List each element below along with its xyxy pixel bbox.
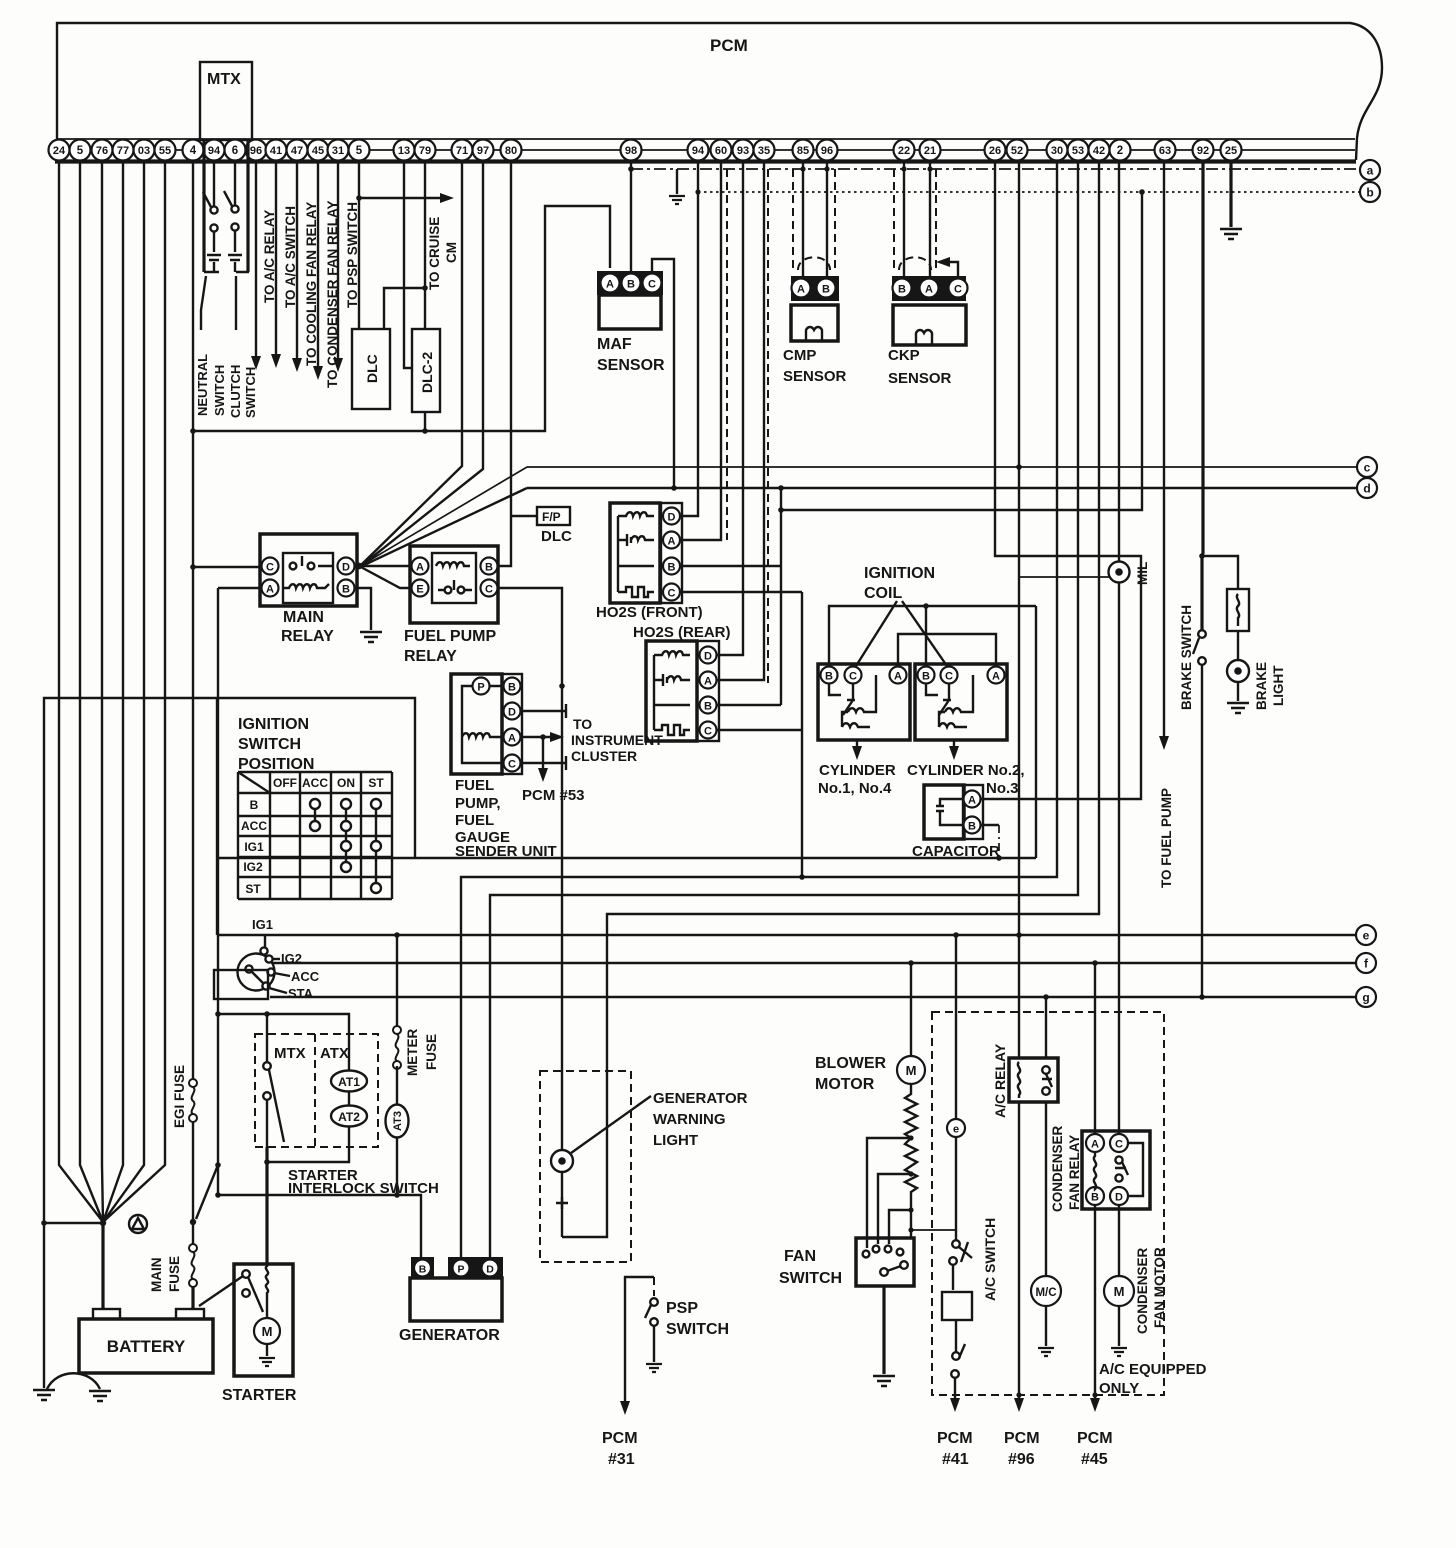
A/C switch upper contacts [949,1240,972,1290]
wire pin 96 to CMP B [826,161,828,277]
wire MAF feed line [193,206,610,431]
CYLINDER No.1, No.4 label [818,762,896,797]
wire node to battery post [101,1223,104,1309]
svg-text:B: B [704,701,712,713]
wire pin 60 to HO2S front A [681,161,721,540]
svg-text:SWITCH: SWITCH [779,1270,842,1287]
PCM pin row center line [57,149,1355,151]
wire pin 13 to DLC-2 [404,161,412,368]
svg-text:94: 94 [692,145,705,157]
svg-text:FUEL PUMP: FUEL PUMP [404,628,496,645]
PCM main connector box outline [57,23,1382,160]
IG2 label [272,958,280,960]
ground stub on bus a [676,169,678,194]
condenser fan motor [1104,1276,1134,1306]
svg-text:CLUSTER: CLUSTER [571,748,637,764]
DLC-2 box [412,329,440,412]
svg-text:30: 30 [1051,145,1063,157]
STA label [269,988,287,993]
BLOWER MOTOR label [815,1055,887,1093]
sender unit label [455,777,557,860]
wire condenser fan relay D to motor [1118,1205,1120,1276]
svg-text:C: C [266,562,274,574]
svg-text:CONDENSER: CONDENSER [1135,1247,1150,1334]
svg-text:C: C [648,279,656,291]
wire brake light branch [1202,556,1238,589]
wire HO2S rear B to riser [717,704,781,706]
wire AC relay coil to PCM 96 [1018,1102,1020,1400]
wire DLC-2 to feed line [424,412,426,431]
wire bus e (IG1) [217,934,1356,936]
svg-text:B: B [668,562,676,574]
svg-text:E: E [416,584,423,596]
wire pin 71 diagonal to relay node [361,161,462,565]
svg-text:77: 77 [117,145,129,157]
svg-text:IGNITION: IGNITION [238,716,309,733]
wire pin 26 to capacitor A [981,161,1141,799]
wire fan switch link to AC switch [911,1229,956,1231]
starter [234,1264,293,1376]
wire pin 97 diagonal to relay node [361,161,483,566]
node e repeat circle [947,1119,965,1137]
svg-text:PCM: PCM [1004,1430,1040,1447]
svg-text:A: A [606,279,614,291]
A/C relay [1009,1058,1058,1102]
node g circle [1356,987,1376,1007]
svg-text:79: 79 [419,145,431,157]
svg-text:SENSOR: SENSOR [783,368,847,385]
svg-text:24: 24 [53,145,66,157]
svg-text:60: 60 [715,145,727,157]
svg-text:#96: #96 [1008,1451,1035,1468]
brake light resistor box [1227,589,1249,631]
svg-text:LIGHT: LIGHT [653,1132,698,1149]
svg-text:M: M [1114,1284,1125,1299]
wire MC to ground [1045,1306,1047,1346]
svg-text:SWITCH: SWITCH [666,1321,729,1338]
interlock switch contacts [263,1034,284,1162]
svg-text:B: B [825,671,833,683]
wire AT2 to starter wire [267,1127,349,1162]
wire stub with arrow from pin 41 [275,161,277,356]
svg-text:B: B [485,562,493,574]
wire CKP C shield stub [944,262,958,277]
ground fan switch [873,1376,895,1386]
svg-text:ONLY: ONLY [1099,1380,1139,1397]
wire pin 22 to CKP B [903,161,905,277]
capacitor [924,785,983,839]
ignition coil cylinder No.1 No.4 [818,664,910,760]
wire node to fuel pump relay E [359,566,411,588]
svg-text:76: 76 [96,145,108,157]
clutch switch pointer [235,276,237,330]
svg-text:PUMP,: PUMP, [455,795,501,812]
wire pin 63 to fuel pump arrow [1163,161,1165,738]
wire fan switch to ground [882,1286,885,1374]
svg-text:FAN MOTOR: FAN MOTOR [1152,1247,1167,1328]
svg-text:B: B [250,798,259,812]
wire PSP to PCM 31 [625,1277,654,1403]
svg-text:53: 53 [1072,145,1084,157]
wire meter fuse riser [396,935,398,1030]
generator [410,1257,503,1321]
PCM #41 label [937,1430,973,1468]
neutral switch contacts [203,161,221,272]
blower resistor taps [867,1138,911,1248]
ground battery left [33,1390,55,1400]
wire stub with arrow from pin 96 [255,161,257,358]
svg-text:LIGHT: LIGHT [1271,665,1286,706]
svg-text:B: B [342,584,350,596]
svg-text:M/C: M/C [1035,1287,1056,1299]
NEUTRAL SWITCH label [195,354,227,416]
PCM pin row bottom edge [55,159,1356,163]
GENERATOR WARNING LIGHT label [653,1090,748,1149]
svg-text:AT2: AT2 [338,1110,360,1124]
IGNITION SWITCH POSITION label [238,716,314,773]
wire pin 53 staircase to generator D [490,161,1078,1257]
HO2S (FRONT) sensor [610,503,682,603]
svg-text:C: C [485,584,493,596]
svg-text:g: g [1362,991,1369,1005]
F/P DLC box [537,507,572,545]
battery positive node junction [100,1220,106,1226]
wire HO2S front B to riser [681,565,781,567]
MTX bracket legs [204,140,248,272]
svg-text:B: B [419,1264,427,1276]
svg-text:98: 98 [625,145,637,157]
svg-text:85: 85 [797,145,809,157]
magnetic clutch M/C [1031,1276,1061,1306]
svg-text:PCM: PCM [602,1430,638,1447]
svg-text:NEUTRAL: NEUTRAL [195,354,210,416]
svg-text:C: C [1115,1139,1123,1151]
svg-text:MAIN: MAIN [283,609,324,626]
svg-text:ATX: ATX [320,1045,349,1062]
shield dashed line rear A [767,169,769,683]
A/C equipped only dashed box [932,1012,1164,1395]
wire battery ground branch [44,1222,103,1224]
clutch switch contacts [224,161,242,272]
fuse EGI FUSE [189,1079,197,1122]
svg-text:No.1, No.4: No.1, No.4 [818,780,892,797]
svg-text:C: C [668,588,676,600]
TO INSTRUMENT CLUSTER label [571,716,663,764]
svg-text:CYLINDER No.2,: CYLINDER No.2, [907,762,1025,779]
svg-text:25: 25 [1225,145,1237,157]
wire from pin 76 [102,161,103,1222]
svg-text:SWITCH: SWITCH [243,367,258,418]
svg-text:A: A [668,536,676,548]
wire node to fuel pump relay A [359,565,411,567]
svg-text:HO2S (REAR): HO2S (REAR) [633,624,731,641]
fuel pump fuel gauge sender unit [451,674,522,774]
blower motor [910,963,912,1056]
wire pin 52 down to A/C relay coil [1018,161,1020,1058]
wire MAF C to bus d [652,259,674,488]
svg-text:A: A [894,671,902,683]
wire pin 30 staircase to generator P [461,161,1057,1257]
svg-text:ON: ON [337,776,355,790]
AT2 ellipse [331,1092,367,1127]
ACC label [274,973,290,976]
wire stub with arrow from pin 47 [296,161,298,360]
A/C switch thermo box [942,1292,972,1320]
wire pin 93 to HO2S rear D [717,161,743,655]
svg-text:FUEL: FUEL [455,812,494,829]
wire from pin 4 through EGI fuse and MAIN fuse to battery [192,161,194,1083]
svg-text:TO FUEL PUMP: TO FUEL PUMP [1159,788,1174,888]
wire from pin 03 [103,161,144,1222]
ground strap arc [47,1373,100,1389]
svg-text:e: e [1363,929,1370,943]
svg-text:TO A/C RELAY: TO A/C RELAY [262,210,277,303]
brake switch contacts [1193,630,1206,665]
generator warning light lamp [551,1150,573,1172]
svg-text:MAIN: MAIN [149,1258,164,1293]
svg-text:B: B [627,279,635,291]
svg-text:FUSE: FUSE [424,1034,439,1070]
svg-text:CM: CM [444,242,459,263]
wire pin 92 to brake switch [1202,161,1203,630]
svg-text:5: 5 [356,145,363,157]
wire pin 2 through MIL to condenser fan relay C [1118,161,1120,1134]
shield dashed line front A [726,169,728,540]
wire stub with arrow from pin 45 [317,161,319,368]
svg-text:B: B [922,671,930,683]
svg-text:FAN: FAN [784,1248,816,1265]
svg-text:COIL: COIL [864,585,902,602]
svg-text:FUSE: FUSE [167,1256,182,1292]
wire capacitor B to bus 858 [981,824,999,826]
svg-text:POSITION: POSITION [238,756,314,773]
wire from pin 24 [59,161,103,1222]
wire fuel pump relay C to sender B [497,588,562,686]
svg-text:MAF: MAF [597,336,632,353]
ignition switch position table [238,772,392,899]
blower resistor chain [905,1084,917,1238]
svg-text:M: M [262,1324,273,1339]
ground battery right [89,1391,111,1401]
svg-text:A: A [925,284,933,296]
wire pin 21 to CKP A [929,161,931,277]
svg-text:DLC: DLC [364,354,380,383]
svg-text:4: 4 [190,145,197,157]
wire MIL bottom stub [1019,576,1110,578]
svg-text:A/C RELAY: A/C RELAY [992,1043,1008,1118]
svg-text:52: 52 [1011,145,1023,157]
node e circle [1356,925,1376,945]
battery [79,1309,213,1373]
ignition switch position enclosure [44,698,415,1388]
svg-text:STARTER: STARTER [222,1387,297,1404]
wire pin 79 to DLC and DLC-2 [384,161,425,329]
svg-text:EGI FUSE: EGI FUSE [172,1065,187,1128]
svg-text:03: 03 [138,145,150,157]
relay node junction [356,563,363,570]
DLC box [352,329,390,409]
svg-text:BRAKE: BRAKE [1254,662,1269,710]
svg-text:C: C [704,726,712,738]
svg-text:P: P [477,682,484,694]
svg-text:CMP: CMP [783,347,816,364]
wire bus f to condenser fan relay A [1094,963,1096,1134]
wire HO2S rear C to riser [717,729,802,731]
shield dashed lines CMP [793,169,835,272]
wire bus c diagonal to relay node [360,467,527,566]
node c circle [1357,457,1377,477]
svg-text:GENERATOR: GENERATOR [399,1327,500,1344]
wire pin 25 to ground [1229,161,1232,227]
wire bus b (dotted to node b) [698,191,1360,193]
A/C EQUIPPED ONLY label [1099,1361,1207,1397]
svg-text:A/C EQUIPPED: A/C EQUIPPED [1099,1361,1207,1378]
FAN SWITCH label [779,1248,842,1287]
svg-text:TO PSP SWITCH: TO PSP SWITCH [345,202,360,308]
wire AC relay contact to bus g [1045,997,1047,1058]
svg-text:B: B [822,284,830,296]
wire AC relay contact to MC [1045,1102,1047,1276]
svg-text:26: 26 [989,145,1001,157]
svg-text:97: 97 [477,145,489,157]
svg-text:A/C SWITCH: A/C SWITCH [982,1218,998,1301]
svg-text:MTX: MTX [207,71,241,88]
node d circle [1357,478,1377,498]
wire ignition coil B bus [829,606,1036,667]
PCM #96 label [1004,1430,1040,1468]
AT3 ellipse [386,1105,409,1138]
svg-text:71: 71 [456,145,468,157]
PCM pin circles with pin numbers [49,140,1242,161]
CMP sensor [791,276,839,341]
PSP switch [645,1277,658,1362]
svg-text:PCM: PCM [937,1430,973,1447]
STARTER INTERLOCK SWITCH label [288,1167,439,1197]
svg-text:DLC: DLC [541,528,572,545]
wire bus g (STA) [270,996,1356,998]
CMP SENSOR label [783,347,847,385]
wire battery to starter contact [199,1276,243,1306]
svg-text:C: C [849,671,857,683]
generator warning light dashed box [540,1071,631,1262]
svg-text:42: 42 [1093,145,1105,157]
svg-text:TO CONDENSER FAN RELAY: TO CONDENSER FAN RELAY [325,200,340,388]
svg-text:No.3: No.3 [986,780,1019,797]
arrow to PCM 41 [950,1398,960,1412]
svg-text:#41: #41 [942,1451,969,1468]
svg-text:A: A [266,584,274,596]
wire condenser fan relay B to PCM 45 [1094,1205,1096,1400]
svg-text:IG2: IG2 [281,951,302,966]
svg-text:96: 96 [250,145,262,157]
svg-text:e: e [953,1124,959,1136]
BRAKE LIGHT label [1254,662,1286,710]
MAF sensor [597,271,663,329]
key switch housing box [214,970,268,999]
ground condenser fan motor [1111,1348,1127,1356]
junction dots on bus a [800,166,932,171]
svg-text:CONDENSER: CONDENSER [1050,1125,1065,1212]
ground main relay [360,632,382,642]
svg-text:D: D [508,707,516,719]
wire pin 5 to DLC with cruise branch [358,161,360,329]
wire pin 42 staircase to warning light leg [562,161,1099,1237]
svg-text:D: D [486,1264,494,1276]
svg-text:80: 80 [505,145,517,157]
ignition key switch [238,947,275,990]
wire bus 858 [415,857,1036,859]
svg-text:TO: TO [573,716,592,732]
wire main relay A feed [218,587,262,589]
PCM #31 label [602,1430,638,1468]
svg-text:MTX: MTX [274,1045,306,1062]
svg-text:A: A [704,676,712,688]
svg-text:PCM: PCM [1077,1430,1113,1447]
svg-text:PCM: PCM [710,36,748,55]
svg-text:ACC: ACC [291,969,320,984]
svg-text:IGNITION: IGNITION [864,565,935,582]
ignition coil pointer lines [856,601,947,666]
svg-text:D: D [342,562,350,574]
svg-text:METER: METER [405,1028,420,1076]
wire from pin 55 [103,161,165,1222]
svg-text:BRAKE SWITCH: BRAKE SWITCH [1179,605,1194,710]
svg-text:C: C [954,284,962,296]
svg-text:d: d [1363,482,1370,496]
svg-text:B: B [1091,1192,1099,1204]
ignition coil cylinder No.2 No.3 [915,664,1007,760]
shield dashed lines CKP [894,169,936,272]
svg-text:ACC: ACC [302,776,328,790]
svg-text:FAN RELAY: FAN RELAY [1067,1135,1082,1210]
wire from pin 5 [80,161,103,1222]
ground brake light [1227,703,1249,713]
svg-text:AT1: AT1 [338,1075,360,1089]
wire brake switch to bus g [1201,665,1203,997]
wire pin 80 to fuel pump relay B with F/P stub [498,161,537,566]
svg-text:CLUTCH: CLUTCH [228,365,243,418]
svg-text:SENSOR: SENSOR [597,357,665,374]
wire 94/ATX riser [217,588,219,1195]
wire bus d [527,487,1357,489]
svg-text:A: A [797,284,805,296]
svg-text:IG2: IG2 [243,860,263,874]
CYLINDER No.2, No.3 label [907,762,1025,797]
CONDENSER FAN RELAY label [1050,1125,1082,1212]
svg-text:ST: ST [245,882,261,896]
node b circle [1360,182,1380,202]
wire AT3 to link line [396,1138,398,1195]
PCM pin row upper line [57,138,1355,140]
svg-text:2: 2 [1117,145,1123,157]
svg-text:TO COOLING FAN RELAY: TO COOLING FAN RELAY [304,202,319,366]
svg-text:A: A [968,795,976,807]
CKP sensor [892,276,968,345]
ground PSP switch [646,1364,662,1372]
PCM #45 label [1077,1430,1113,1468]
ground pin 25 [1220,229,1242,239]
circled triangle marker [129,1215,147,1233]
svg-text:92: 92 [1197,145,1209,157]
TO CRUISE CM label [427,217,459,290]
svg-text:63: 63 [1159,145,1171,157]
svg-text:55: 55 [159,145,171,157]
warning light pointer [571,1096,651,1153]
MIL lamp [1109,562,1130,583]
svg-text:MIL: MIL [1135,562,1150,585]
AT1 ellipse [331,1071,367,1092]
svg-text:B: B [968,821,976,833]
